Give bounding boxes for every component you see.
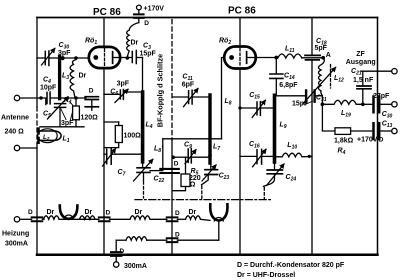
svg-text:D: D: [106, 210, 111, 217]
svg-text:C13: C13: [382, 121, 393, 130]
svg-text:120Ω: 120Ω: [81, 115, 99, 122]
svg-text:1,8kΩ: 1,8kΩ: [334, 137, 354, 144]
svg-text:D: D: [379, 137, 384, 144]
svg-text:C15: C15: [249, 92, 260, 101]
svg-text:ZF: ZF: [356, 51, 365, 58]
svg-text:L12: L12: [334, 75, 344, 84]
svg-text:C6: C6: [110, 89, 118, 98]
svg-text:D: D: [174, 161, 179, 168]
svg-text:PC 86: PC 86: [228, 6, 256, 17]
svg-text:+170V: +170V: [144, 5, 165, 12]
svg-text:L7: L7: [213, 144, 220, 153]
svg-text:C30: C30: [382, 111, 393, 120]
svg-text:240 Ω: 240 Ω: [5, 129, 25, 136]
svg-text:D = Durchf.-Kondensator 820 p: D = Durchf.-Kondensator 820 pF: [237, 262, 345, 269]
svg-text:C21: C21: [351, 68, 362, 77]
svg-text:C7: C7: [118, 169, 126, 178]
svg-text:D: D: [120, 248, 125, 255]
svg-text:D: D: [175, 232, 180, 239]
svg-text:C23: C23: [219, 173, 230, 182]
svg-text:100Ω: 100Ω: [124, 133, 142, 140]
svg-text:C16: C16: [249, 141, 260, 150]
svg-text:27pF: 27pF: [373, 93, 390, 100]
svg-text:C14: C14: [284, 73, 295, 82]
svg-text:3pF: 3pF: [61, 120, 74, 127]
svg-text:BF-Kopplg d Schlitze: BF-Kopplg d Schlitze: [156, 54, 165, 127]
svg-text:Dr = UHF-Drossel: Dr = UHF-Drossel: [237, 272, 295, 279]
svg-text:Rö2: Rö2: [219, 37, 231, 46]
svg-text:Dr: Dr: [85, 209, 93, 216]
svg-text:Dr: Dr: [189, 209, 197, 216]
svg-text:300mA: 300mA: [5, 241, 28, 248]
svg-text:Antenne: Antenne: [1, 115, 29, 122]
svg-text:10pF: 10pF: [40, 85, 57, 92]
svg-text:Ausgang: Ausgang: [346, 59, 376, 66]
svg-text:D: D: [28, 209, 33, 216]
svg-text:6,8pF: 6,8pF: [279, 82, 298, 89]
svg-text:L9: L9: [280, 122, 287, 131]
svg-text:Ω: Ω: [190, 181, 196, 188]
svg-text:Dr: Dr: [135, 209, 143, 216]
svg-text:3pF: 3pF: [58, 50, 71, 57]
svg-text:A: A: [326, 52, 331, 59]
svg-text:15pF: 15pF: [140, 51, 157, 58]
svg-text:3pF: 3pF: [117, 81, 130, 88]
svg-text:L19: L19: [341, 110, 351, 119]
svg-text:PC 86: PC 86: [93, 7, 121, 18]
svg-text:L2: L2: [43, 134, 50, 141]
svg-text:L8': L8': [154, 146, 163, 155]
svg-text:D: D: [89, 87, 94, 94]
svg-text:D: D: [144, 20, 149, 27]
svg-text:R4: R4: [338, 148, 346, 157]
svg-text:C24: C24: [286, 174, 297, 183]
svg-text:D: D: [175, 210, 180, 217]
svg-text:L1: L1: [63, 136, 70, 145]
svg-text:C5: C5: [43, 111, 51, 120]
svg-text:Heizung: Heizung: [2, 231, 29, 238]
svg-text:Dr: Dr: [131, 40, 139, 47]
svg-text:Dr: Dr: [47, 209, 55, 216]
svg-text:+170V: +170V: [357, 136, 378, 143]
svg-text:L3: L3: [62, 73, 69, 82]
svg-text:Dr: Dr: [79, 73, 87, 80]
svg-text:15pF: 15pF: [292, 101, 309, 108]
svg-text:300mA: 300mA: [124, 263, 147, 270]
svg-text:5pF: 5pF: [315, 45, 328, 52]
svg-text:Rö1: Rö1: [85, 38, 97, 47]
svg-text:L8: L8: [225, 98, 232, 107]
svg-text:C22: C22: [154, 176, 165, 185]
svg-text:L10: L10: [287, 142, 297, 151]
svg-text:L4: L4: [146, 122, 153, 131]
svg-text:1,5 nF: 1,5 nF: [353, 77, 374, 84]
svg-text:L11: L11: [285, 46, 295, 55]
svg-text:6pF: 6pF: [182, 82, 195, 89]
